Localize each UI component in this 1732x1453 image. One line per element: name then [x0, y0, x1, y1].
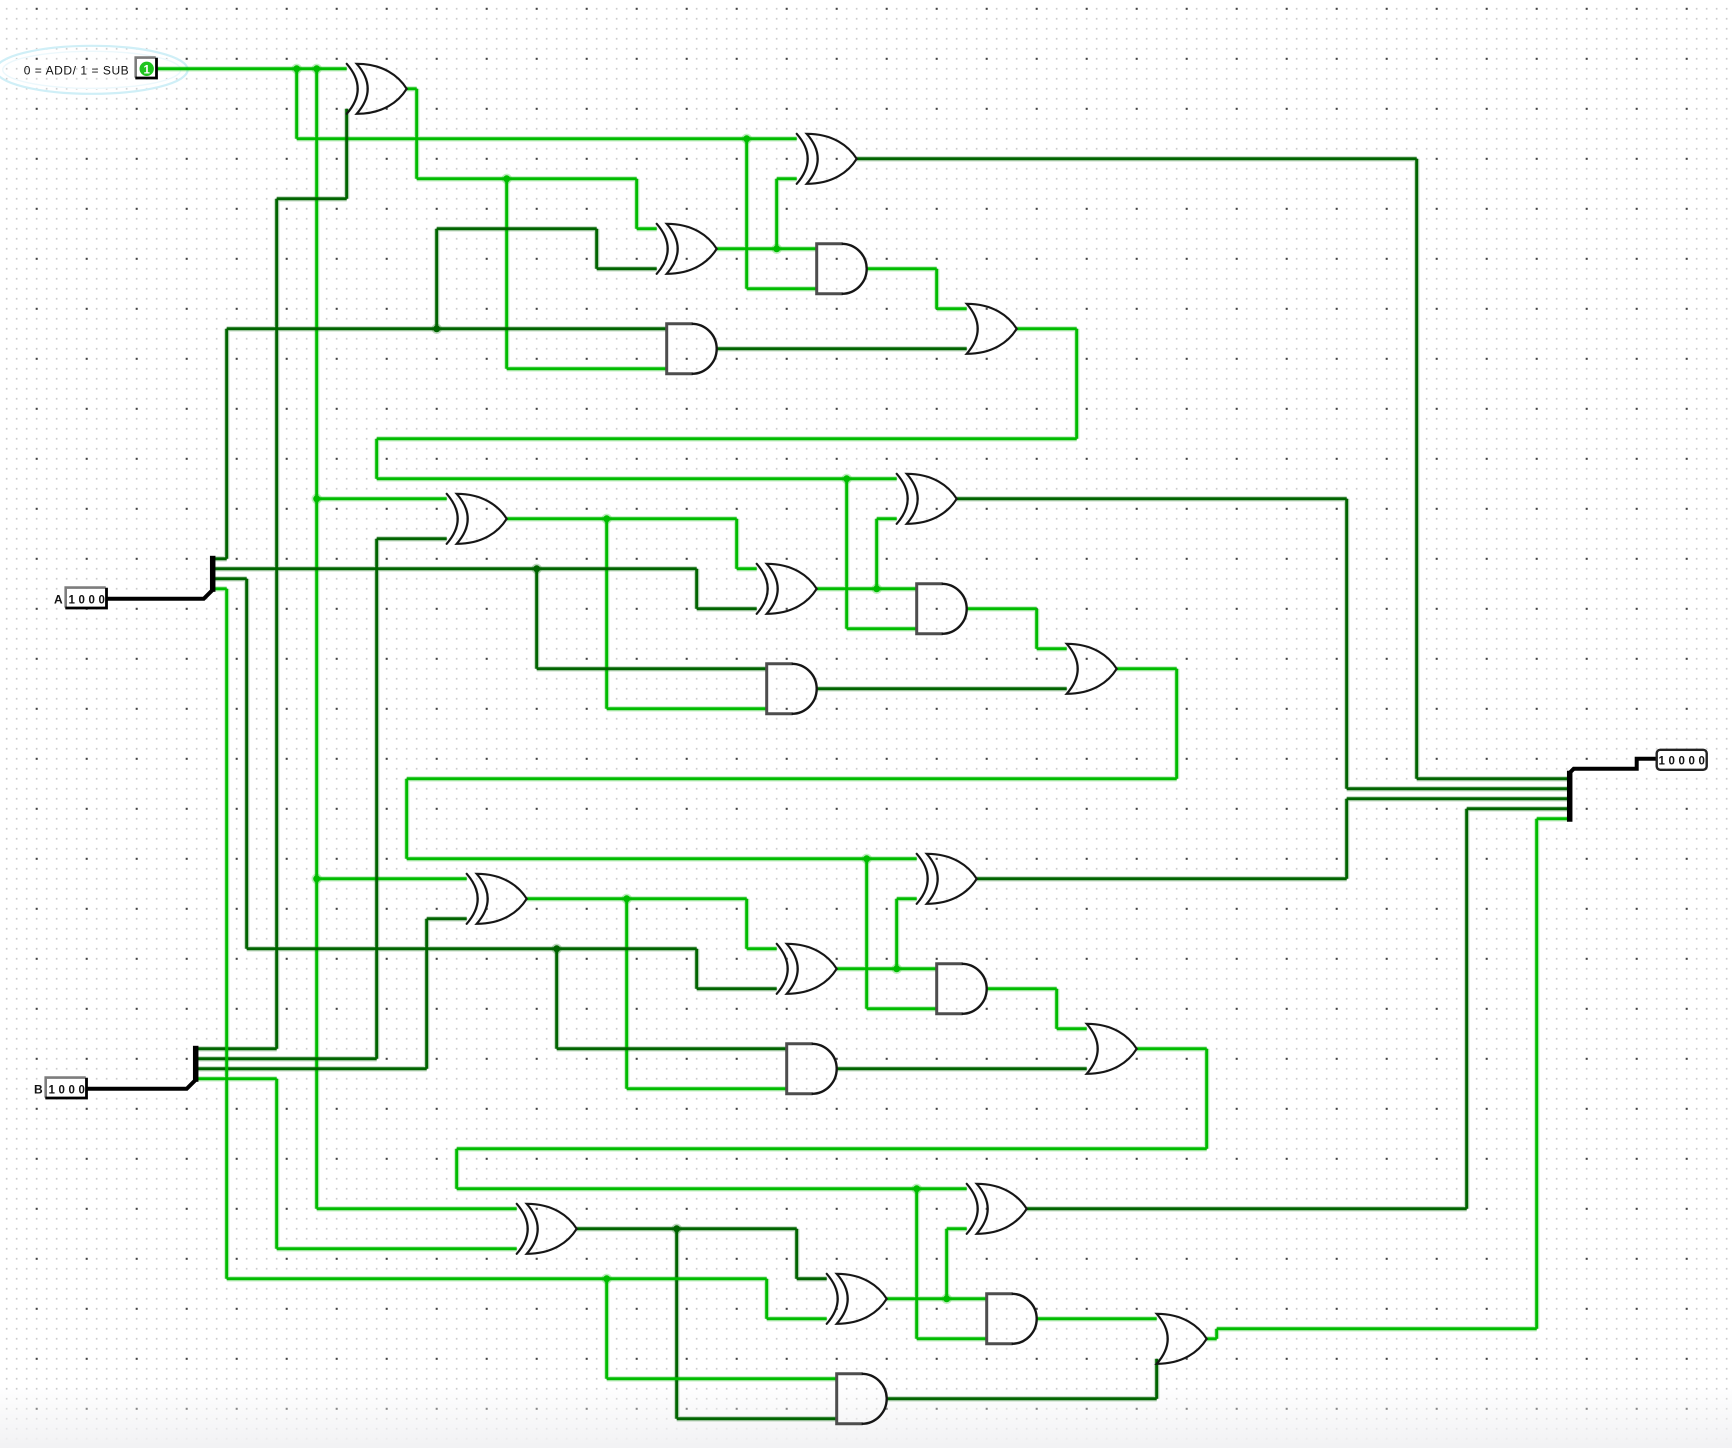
wire U16 out to OR U18 top input — [1057, 1027, 1087, 1030]
wire carry0 branch drop — [845, 479, 848, 629]
wire A1: branch drop — [535, 569, 538, 669]
wire U22 out to OR U24 top input — [1037, 1317, 1157, 1320]
junction U20 out branch — [942, 1294, 952, 1304]
and gate U4: carry term Cin0&HS0 — [817, 244, 867, 294]
wire carry2 jog — [455, 1149, 458, 1189]
selection halo around SUB pin — [0, 46, 188, 94]
wire U1 out to AND U5 lower input — [507, 367, 667, 370]
wire carry1 from OR U12 — [1117, 667, 1177, 670]
wire A3: to XOR U20 lower input — [767, 1317, 827, 1320]
wire U17 out to OR U18 lower input — [837, 1067, 1087, 1070]
or gate U24: carry-out bit3 — [1157, 1314, 1207, 1364]
wire pin B to splitter (4-bit) — [87, 1080, 196, 1089]
wire carry1 branch drop — [865, 859, 868, 1009]
wire A3: to AND U23 top input — [607, 1377, 837, 1380]
wire SUB: vertical distribution to bits 1-3 — [315, 69, 318, 1209]
wire U1 out drop 2 — [635, 179, 638, 229]
wire S1: to output splitter — [1347, 787, 1569, 790]
junction SUB / carry-in bit0 — [292, 64, 302, 74]
svg-text:0: 0 — [68, 1084, 74, 1096]
wire S3: to output splitter — [1467, 807, 1569, 810]
wire U13 out horizontal — [527, 897, 747, 900]
xor gate U21: sum S3 — [967, 1184, 1027, 1234]
wire A3: horizontal east — [227, 1277, 767, 1280]
wire SUB: to XOR U13 input — [317, 877, 467, 880]
wire U16 out drop — [1055, 989, 1058, 1029]
wire A2: branch drop — [555, 949, 558, 1049]
wire A3: branch drop — [605, 1279, 608, 1379]
xor gate U9: sum S1 — [897, 474, 957, 524]
wire U7 out to AND U11 lower input — [607, 707, 767, 710]
wire U1 out stub — [407, 87, 417, 90]
and gate U11: carry term A1&X1 — [767, 664, 817, 714]
wire U20 out to AND U22 top input — [887, 1297, 987, 1300]
junction SUB / XOR U13 feed — [312, 874, 322, 884]
wire carry3 horizontal east — [1217, 1327, 1537, 1330]
wire U4 out to OR U6 top input — [937, 307, 967, 310]
or gate U12: carry-out bit1 — [1067, 644, 1117, 694]
wire carry0 drop — [1075, 329, 1078, 439]
wire SUB: carry-in bit0 to XOR U3 — [297, 137, 797, 140]
junction U13 out / AND U17 feed — [622, 894, 632, 904]
wire U8 out to AND U10 top input — [817, 587, 917, 590]
wire U2 out to XOR U3 lower input — [777, 177, 797, 180]
wire B1: to XOR U7 lower input — [377, 537, 447, 540]
svg-text:0: 0 — [1678, 755, 1684, 767]
wire carry0 return west — [377, 437, 1077, 440]
wire B0: vertical rise — [275, 199, 278, 1049]
wire SUB: to AND U4 lower input — [747, 287, 817, 290]
wire A0: to XOR U2 lower input — [597, 267, 657, 270]
wire U19 out drop — [795, 1229, 798, 1279]
wire U19 out to AND U23 lower input — [677, 1417, 837, 1420]
junction carry-in bit0 / AND U4 feed — [742, 134, 752, 144]
wire U1 out drop — [415, 89, 418, 179]
wire U1 out horizontal — [417, 177, 637, 180]
wire carry2 to XOR U21 top input — [457, 1187, 967, 1190]
wire B2: splitter branch — [196, 1067, 427, 1070]
svg-text:B: B — [34, 1082, 43, 1096]
splitter SP3: S0..S4 into output bus — [1567, 771, 1573, 822]
xor gate U19: B3 xor SUB (bit3 invert) — [517, 1204, 577, 1254]
wire A3: splitter branch — [213, 587, 227, 590]
svg-text:1: 1 — [48, 1084, 55, 1096]
junction SUB distribution — [312, 64, 322, 74]
wire U1 out to XOR U2 top input — [637, 227, 657, 230]
splitter SP2: B into B0..B3 — [193, 1046, 199, 1082]
wire carry1 jog — [405, 779, 408, 859]
junction carry2 / AND U22 feed — [912, 1184, 922, 1194]
svg-text:1: 1 — [68, 594, 75, 606]
wire carry1 return west — [407, 777, 1177, 780]
wire U23 out to OR U24 lower input — [887, 1397, 1157, 1400]
and gate U16: carry term Cin2&HS2 — [937, 964, 987, 1014]
wire S1: vertical drop — [1345, 499, 1348, 789]
input pin SUB (value 1) — [135, 58, 156, 79]
wire SUB: pin to XOR U1 input — [157, 67, 347, 70]
junction A3 branch — [602, 1274, 612, 1284]
wire A1: to XOR U8 lower input — [697, 607, 757, 610]
wire B3: to XOR U19 lower input — [277, 1247, 517, 1250]
wire carry3 vertical rise — [1535, 819, 1538, 1329]
wire U19 out to XOR U20 top input — [797, 1277, 827, 1280]
wire output splitter to pin S (5-bit) — [1570, 759, 1657, 773]
wire U4 out drop — [935, 269, 938, 309]
wire B1: vertical rise — [375, 539, 378, 1059]
junction U19 out branch — [672, 1224, 682, 1234]
wire U2 out branch rise — [775, 179, 778, 249]
junction U14 out branch — [892, 964, 902, 974]
svg-text:0: 0 — [98, 594, 104, 606]
wire U14 out to AND U16 top input — [837, 967, 937, 970]
wire U20 out to XOR U21 lower input — [947, 1227, 967, 1230]
wire U10 out to OR U12 top input — [1037, 647, 1067, 650]
wire S0: to output splitter — [1417, 777, 1569, 780]
xor gate U20: A3 xor X3 (bit3 half-sum) — [827, 1274, 887, 1324]
wire carry0 jog — [375, 439, 378, 479]
wire U1 out branch drop — [505, 179, 508, 369]
wire carry1 drop — [1175, 669, 1178, 779]
wire S3: vertical rise — [1465, 809, 1468, 1209]
wire A0: drop — [595, 229, 598, 269]
wire S0: sum bit0 horizontal — [857, 157, 1417, 160]
wire carry2 drop — [1205, 1049, 1208, 1149]
wire B0: horizontal — [277, 197, 347, 200]
wire U4 out — [867, 267, 937, 270]
wire U8 out branch rise — [875, 519, 878, 589]
splitter SP1: A into A0..A3 — [210, 556, 216, 592]
and gate U5: carry term A0&X0 — [667, 324, 717, 374]
xor gate U1: B0 xor SUB (bit0 invert) — [347, 64, 407, 114]
input pin A (value 1000) — [65, 588, 106, 609]
and gate U22: carry term Cin3&HS3 — [987, 1294, 1037, 1344]
wire U10 out drop — [1035, 609, 1038, 649]
and gate U10: carry term Cin1&HS1 — [917, 584, 967, 634]
wire U5 out to OR U6 lower input — [717, 347, 967, 350]
svg-text:0: 0 — [1698, 755, 1704, 767]
xor gate U15: sum S2 — [917, 854, 977, 904]
svg-text:A: A — [54, 592, 63, 606]
wire B0: to XOR U1 lower input — [345, 109, 348, 199]
wire A0: vertical rise — [225, 329, 228, 559]
wire carry2 from OR U18 — [1137, 1047, 1207, 1050]
wire SUB: drop to carry-in bit0 — [295, 69, 298, 139]
wire A0: branch rise — [435, 229, 438, 329]
junction A2 branch — [552, 944, 562, 954]
junction A1 branch — [532, 564, 542, 574]
output pin S (value 10000) — [1657, 750, 1707, 770]
wire S2: vertical rise — [1345, 799, 1348, 879]
wire U11 out to OR U12 lower input — [817, 687, 1067, 690]
xor gate U3: sum S0 — [797, 134, 857, 184]
wire U14 out to XOR U15 lower input — [897, 897, 917, 900]
wire B2: to XOR U13 lower input — [427, 917, 467, 920]
wire carry3 jog — [1215, 1329, 1218, 1339]
wire U23 out rise — [1155, 1359, 1158, 1399]
or gate U18: carry-out bit2 — [1087, 1024, 1137, 1074]
svg-text:0: 0 — [1668, 755, 1674, 767]
wire carry2 return west — [457, 1147, 1207, 1150]
input pin B (value 1000) — [45, 1078, 86, 1099]
wire A0: splitter branch — [213, 557, 227, 560]
svg-text:0: 0 — [78, 594, 84, 606]
svg-text:0: 0 — [78, 1084, 84, 1096]
junction U8 out branch — [872, 584, 882, 594]
wire U7 out to XOR U8 top input — [737, 567, 757, 570]
wire S0: vertical drop — [1415, 159, 1418, 779]
svg-text:0: 0 — [1688, 755, 1694, 767]
junction U7 out / AND U11 feed — [602, 514, 612, 524]
wire S3: sum bit3 horizontal — [1027, 1207, 1467, 1210]
wire A2: to AND U17 top input — [557, 1047, 787, 1050]
wire A1: to AND U11 top input — [537, 667, 767, 670]
wire A2: drop — [695, 949, 698, 989]
svg-text:0 = ADD/ 1 = SUB: 0 = ADD/ 1 = SUB — [24, 63, 130, 77]
xor gate U2: A0 xor X0 (bit0 half-sum) — [657, 224, 717, 274]
wire U7 out horizontal — [507, 517, 737, 520]
wire carry2 branch drop — [915, 1189, 918, 1339]
junction carry0 / AND U10 feed — [842, 474, 852, 484]
wire SUB: to XOR U7 input — [317, 497, 447, 500]
xor gate U14: A2 xor X2 (bit2 half-sum) — [777, 944, 837, 994]
wire U13 out drop — [745, 899, 748, 949]
svg-text:1: 1 — [1658, 755, 1665, 767]
wire U10 out — [967, 607, 1037, 610]
wire U19 out horizontal — [577, 1227, 797, 1230]
wire A2: horizontal east — [247, 947, 697, 950]
wire carry3 to output splitter — [1537, 817, 1569, 820]
wire A3: vertical drop — [225, 589, 228, 1279]
svg-text:0: 0 — [88, 594, 94, 606]
wire A3: drop — [765, 1279, 768, 1319]
wire U7 out branch drop — [605, 519, 608, 709]
wire carry0 to XOR U9 top input — [377, 477, 897, 480]
xor gate U8: A1 xor X1 (bit1 half-sum) — [757, 564, 817, 614]
wire S1: sum bit1 horizontal — [957, 497, 1347, 500]
wire B2: vertical rise — [425, 919, 428, 1069]
wire U19 out branch drop — [675, 1229, 678, 1419]
wire B1: splitter branch — [196, 1057, 377, 1060]
xor gate U7: B1 xor SUB (bit1 invert) — [447, 494, 507, 544]
svg-text:0: 0 — [58, 1084, 64, 1096]
wire pin A to splitter (4-bit) — [107, 590, 213, 599]
and gate U17: carry term A2&X2 — [787, 1044, 837, 1094]
wire U14 out branch rise — [895, 899, 898, 969]
wire A1: splitter branch east — [213, 567, 697, 570]
wire U20 out branch rise — [945, 1229, 948, 1299]
wire B0: splitter branch — [196, 1047, 277, 1050]
wire A0: to AND U5 top input — [227, 327, 667, 330]
wire SUB: to XOR U19 input — [317, 1207, 517, 1210]
wire S2: sum bit2 horizontal — [977, 877, 1347, 880]
junction U2 out branch — [772, 244, 782, 254]
wire A0: horizontal — [437, 227, 597, 230]
wire A2: splitter branch — [213, 577, 247, 580]
junction A0 branch — [432, 324, 442, 334]
wire U13 out to XOR U14 top input — [747, 947, 777, 950]
and gate U23: carry term A3&X3 — [837, 1374, 887, 1424]
junction carry1 / AND U16 feed — [862, 854, 872, 864]
wire carry1 to AND U16 lower input — [867, 1007, 937, 1010]
or gate U6: carry-out bit0 — [967, 304, 1017, 354]
wire B3: splitter branch — [196, 1077, 277, 1080]
wire SUB: drop to AND U4 — [745, 139, 748, 289]
wire S2: to output splitter — [1347, 797, 1569, 800]
wire B3: vertical drop — [275, 1079, 278, 1249]
wire A2: vertical drop — [245, 579, 248, 949]
wire U7 out drop — [735, 519, 738, 569]
junction SUB / XOR U7 feed — [312, 494, 322, 504]
wire carry0 from OR U6 — [1017, 327, 1077, 330]
wire A1: drop — [695, 569, 698, 609]
wire carry1 to XOR U15 top input — [407, 857, 917, 860]
wire A2: to XOR U14 lower input — [697, 987, 777, 990]
wire U8 out to XOR U9 lower input — [877, 517, 897, 520]
wire U13 out branch drop — [625, 899, 628, 1089]
wire glow underlay (dark nets) — [196, 109, 1569, 1419]
wire U13 out to AND U17 lower input — [627, 1087, 787, 1090]
xor gate U13: B2 xor SUB (bit2 invert) — [467, 874, 527, 924]
junction U1 out / AND U5 feed — [502, 174, 512, 184]
svg-text:1: 1 — [143, 64, 150, 76]
wire U2 out to AND U4 top input — [717, 247, 817, 250]
wire glow underlay (bright nets) — [157, 69, 1569, 1379]
wire carry2 to AND U22 lower input — [917, 1337, 987, 1340]
wire carry0 to AND U10 lower input — [847, 627, 917, 630]
wire U16 out — [987, 987, 1057, 990]
wire carry3 from OR U24 — [1207, 1337, 1217, 1340]
